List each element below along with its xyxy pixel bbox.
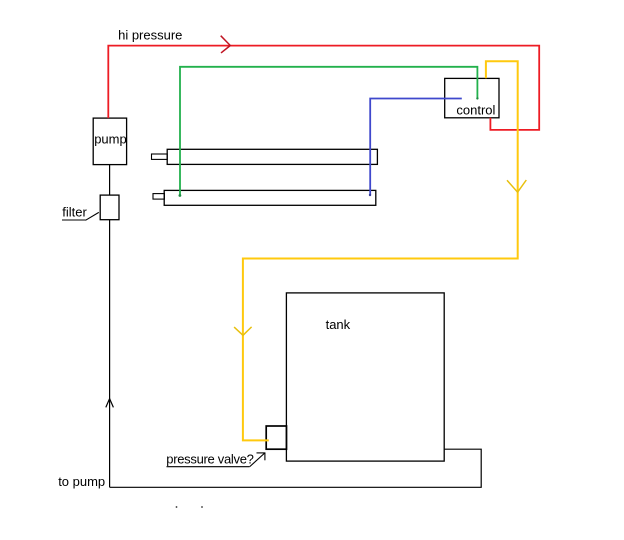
wire pump to filter	[109, 165, 111, 196]
wire green	[180, 67, 477, 196]
leader arrow to valve	[249, 453, 265, 468]
filter box	[100, 195, 119, 220]
svg-text:hi pressure: hi pressure	[118, 28, 182, 43]
svg-text:pump: pump	[94, 132, 127, 147]
svg-text:control: control	[456, 102, 495, 117]
svg-text:to pump: to pump	[58, 474, 105, 489]
stray dot right	[201, 506, 203, 508]
node green end dot at cylinder	[179, 194, 182, 197]
stray dot left	[176, 506, 178, 508]
wire red hi pressure	[108, 46, 539, 130]
label pressure valve?	[166, 451, 253, 466]
cylinder 1 body	[167, 149, 377, 164]
pump box	[93, 118, 126, 165]
node green end dot at control	[476, 97, 478, 99]
wire orange supply	[243, 61, 518, 440]
svg-text:filter: filter	[62, 204, 87, 219]
label filter	[62, 204, 99, 220]
cylinder 2 body	[164, 190, 376, 205]
svg-text:tank: tank	[326, 317, 351, 332]
pressure valve box	[266, 426, 286, 449]
arrowhead red	[221, 36, 231, 53]
wire return vertical to pump	[109, 220, 111, 488]
arrowhead up on return wire	[106, 399, 114, 408]
cylinder 1 rod nub	[152, 154, 168, 159]
node blue end dot	[369, 194, 371, 196]
arrowhead orange lower	[234, 327, 252, 335]
control box	[445, 78, 499, 117]
tank box	[286, 293, 444, 461]
arrowhead orange upper	[507, 180, 526, 192]
wire blue	[370, 99, 462, 196]
cylinder 2 rod nub	[153, 194, 164, 200]
wire return from tank	[110, 449, 482, 487]
svg-text:pressure valve?: pressure valve?	[166, 451, 253, 466]
